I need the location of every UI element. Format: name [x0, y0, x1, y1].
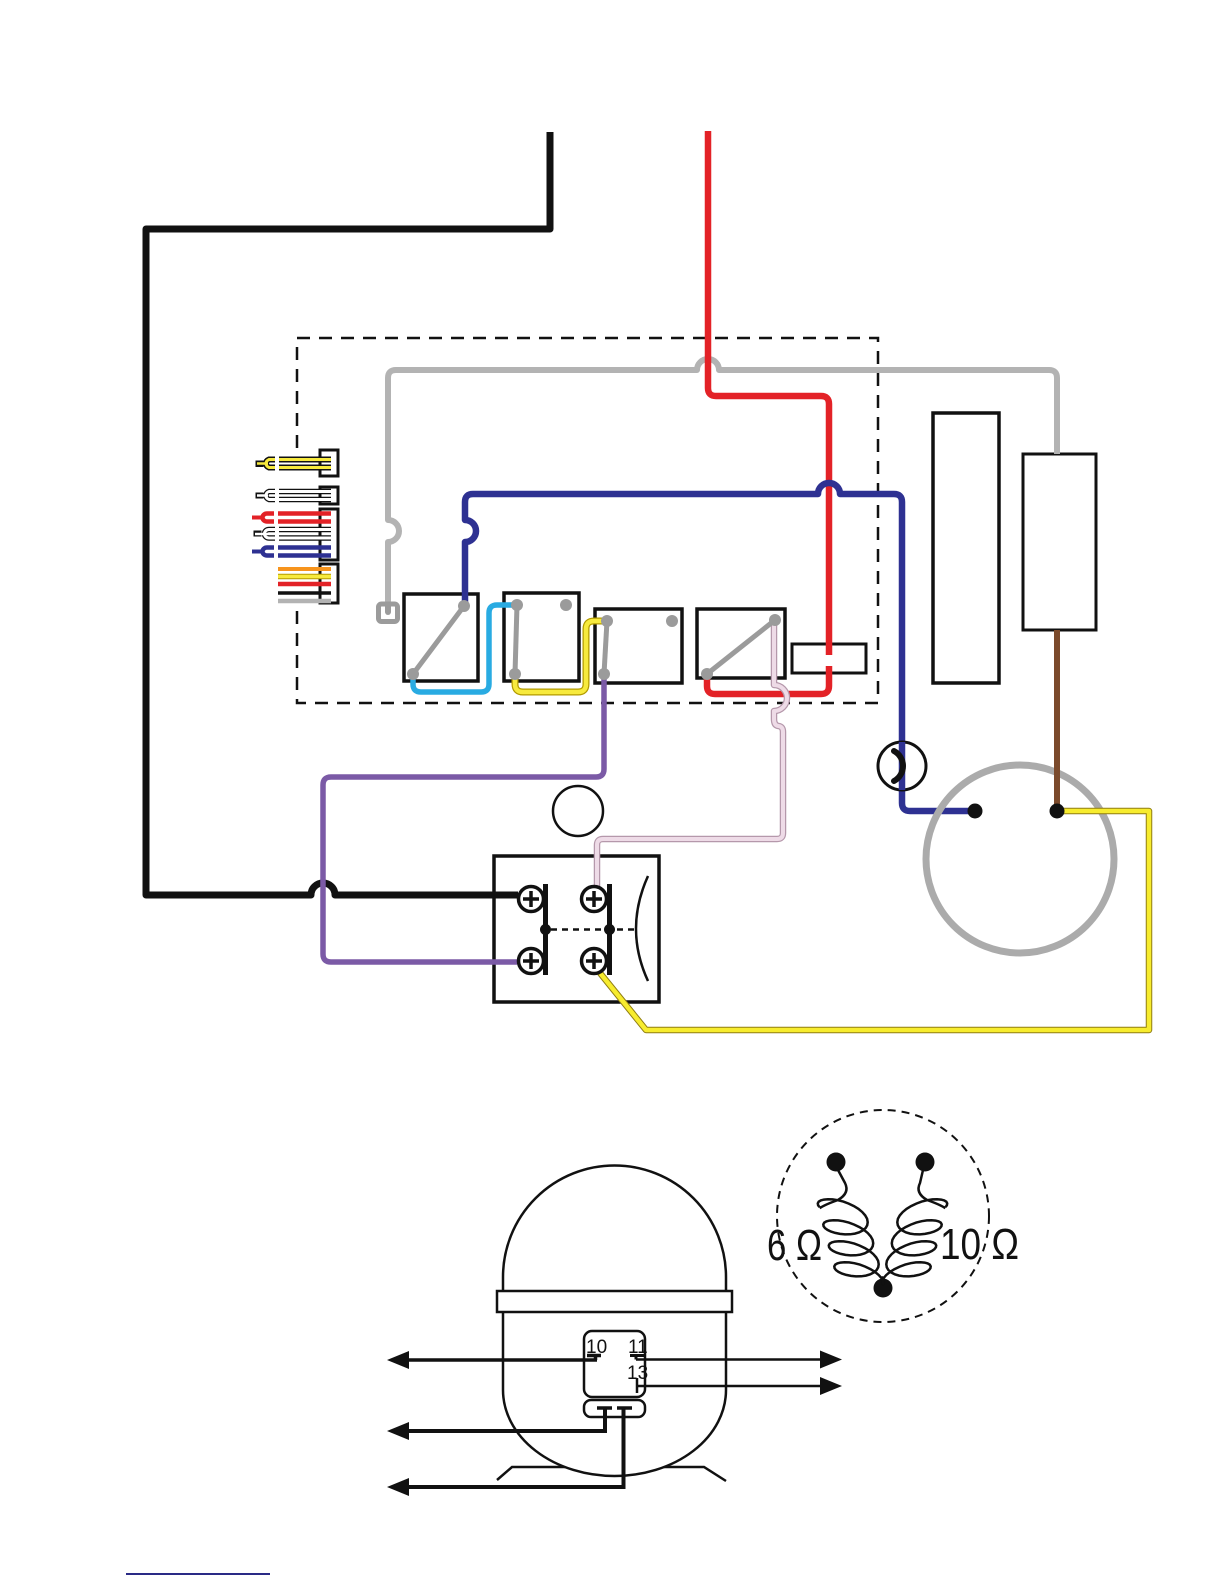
- relay K2 box: [504, 593, 579, 681]
- compressor band: [497, 1291, 732, 1312]
- wire purple: [323, 672, 604, 962]
- relay K3 box: [595, 609, 682, 683]
- connector J3 red/white/blue pairs: [252, 509, 338, 560]
- thermostat circle: [553, 786, 603, 836]
- overload protector: [878, 742, 926, 790]
- arrow 3 from pin 13: [637, 1385, 822, 1388]
- wire black L1: [146, 132, 550, 895]
- arrow 4: [406, 1408, 605, 1431]
- run winding coil right: [919, 1170, 946, 1208]
- relay K4 contact arm: [707, 620, 775, 674]
- arrow 2 from pin 11: [636, 1358, 822, 1361]
- connector J1 yellow pair: [256, 450, 339, 476]
- lower pins: [597, 1406, 632, 1410]
- wire red L2: [707, 131, 829, 694]
- svg-text:10 Ω: 10 Ω: [940, 1220, 1019, 1269]
- motor terminal dots: [968, 804, 983, 819]
- wire brown: [1054, 630, 1060, 811]
- relay K4 box: [697, 609, 785, 678]
- gray wire end terminator: [379, 604, 398, 622]
- compressor motor circle: [926, 765, 1114, 953]
- relay K1 contact arm: [413, 606, 464, 674]
- arrow 5: [406, 1408, 624, 1487]
- switch box: [519, 876, 649, 981]
- relay K1 box: [404, 594, 478, 681]
- control box dashed enclosure: [297, 338, 878, 703]
- pin 13 mark: [636, 1378, 639, 1393]
- tall component box left: [933, 413, 999, 683]
- pin 10 mark: [587, 1355, 601, 1360]
- terminal cover box: [584, 1331, 645, 1397]
- wire gray: [388, 359, 1057, 618]
- wire navy blue: [465, 483, 971, 811]
- wire yellow relay jumper: [515, 621, 605, 692]
- pin 11 mark: [630, 1355, 644, 1360]
- svg-text:6 Ω: 6 Ω: [767, 1221, 822, 1270]
- start winding coil left: [820, 1170, 847, 1208]
- footer rule: [126, 1573, 270, 1575]
- lower pin box: [584, 1400, 645, 1417]
- switch box body: [494, 856, 659, 1002]
- relay K3 contact arm: [604, 621, 607, 674]
- winding terminal dots: [827, 1153, 846, 1172]
- arrow 1 from pin 10: [406, 1358, 597, 1362]
- wire yellow main: [600, 811, 1149, 1030]
- connector J4 multi-wire: [278, 564, 338, 603]
- aux contact box: [792, 644, 866, 673]
- lower compressor body: [503, 1166, 726, 1477]
- relay K2 contact arm: [515, 605, 517, 674]
- lower compressor stand: [497, 1467, 726, 1481]
- connector J2 white pair: [256, 487, 339, 504]
- connector backing: [250, 448, 342, 609]
- wire cyan: [413, 605, 515, 692]
- winding diagram dashed circle: [777, 1110, 989, 1322]
- wire pink: [597, 616, 787, 887]
- tall component box right: [1023, 454, 1096, 630]
